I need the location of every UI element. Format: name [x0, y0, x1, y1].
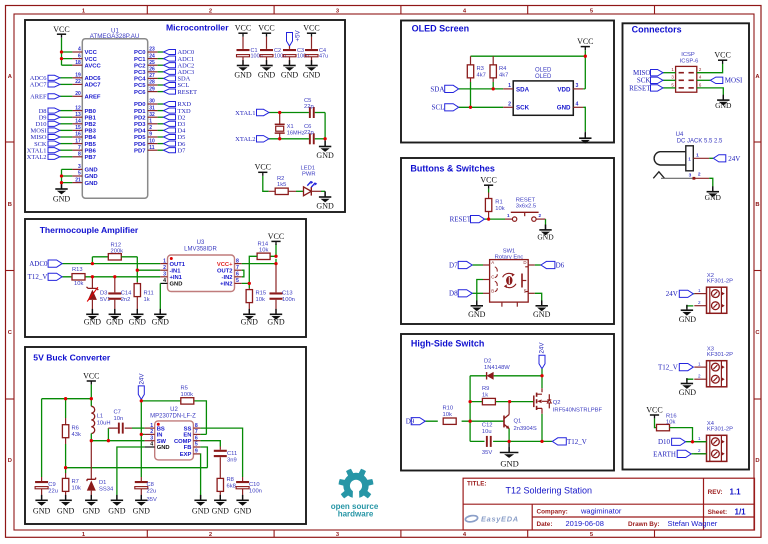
svg-text:C: C — [491, 275, 494, 280]
wire R16 to D10 row — [670, 428, 693, 442]
junction dots high-side — [468, 374, 543, 443]
svg-text:RESET: RESET — [450, 216, 472, 224]
net flag T12_V (X3) — [679, 364, 693, 371]
net flag SCK (ICSP) — [651, 77, 664, 83]
svg-text:OLED: OLED — [535, 74, 552, 80]
open source hardware logo — [339, 469, 374, 499]
wire to net flag TXD — [158, 110, 164, 112]
net flag SCK — [48, 141, 60, 146]
capacitor C11 3n9 — [214, 447, 237, 464]
svg-text:200k: 200k — [111, 248, 124, 254]
svg-text:VCC: VCC — [480, 176, 496, 185]
capacitor C14 2n2 — [108, 277, 132, 315]
svg-text:OLED Screen: OLED Screen — [412, 24, 470, 34]
wire to net flag ADC2 — [158, 64, 164, 66]
svg-text:2: 2 — [698, 300, 701, 305]
svg-text:27: 27 — [149, 73, 155, 79]
ground (thermo) — [91, 309, 93, 314]
svg-text:Company:: Company: — [537, 509, 568, 516]
net flag XTAL2 — [48, 154, 60, 159]
svg-text:COMP: COMP — [174, 439, 192, 445]
svg-text:10n: 10n — [114, 416, 124, 422]
svg-text:2: 2 — [163, 265, 166, 271]
svg-text:GND: GND — [241, 317, 259, 326]
net flag D7 — [458, 261, 472, 268]
capacitor C9 22u — [35, 477, 58, 500]
svg-text:GND: GND — [85, 174, 98, 180]
svg-text:PC5: PC5 — [134, 83, 146, 89]
resistor R5 100k — [181, 385, 194, 404]
wire 24V rail (high-side) — [470, 369, 542, 442]
svg-text:Date:: Date: — [537, 521, 553, 528]
net flag D6 — [541, 261, 555, 268]
svg-text:GND: GND — [157, 445, 170, 451]
svg-text:R8: R8 — [227, 477, 234, 483]
wire to net flag D9 — [60, 116, 72, 118]
svg-text:BS: BS — [157, 426, 165, 432]
svg-text:LMV358IDR: LMV358IDR — [184, 247, 217, 253]
svg-text:ADC0: ADC0 — [29, 260, 48, 268]
svg-text:47u: 47u — [319, 54, 328, 60]
svg-text:100n: 100n — [249, 489, 262, 495]
svg-text:26: 26 — [149, 67, 155, 73]
svg-text:SCL: SCL — [432, 104, 445, 112]
net flag SDA — [164, 76, 176, 81]
svg-text:10k: 10k — [443, 412, 452, 418]
svg-text:PC4: PC4 — [134, 77, 146, 83]
svg-text:D1: D1 — [99, 480, 106, 486]
svg-text:PB1: PB1 — [85, 115, 97, 121]
svg-text:2: 2 — [698, 172, 701, 178]
OLED display module — [503, 68, 583, 116]
svg-text:7: 7 — [236, 265, 239, 271]
wire to net flag ADC6 — [60, 77, 72, 79]
svg-text:31: 31 — [149, 105, 155, 111]
svg-text:PD4: PD4 — [134, 129, 146, 135]
svg-text:ADC6: ADC6 — [85, 76, 102, 82]
wire SDA net — [459, 88, 504, 90]
svg-text:1: 1 — [698, 436, 701, 441]
wire D9/R10/base row — [425, 420, 504, 422]
wire RESET to ICSP pin5 — [663, 87, 676, 89]
net flag RXD — [164, 101, 176, 106]
wire FB to feedback row — [200, 447, 207, 468]
svg-text:PD1: PD1 — [134, 109, 146, 115]
svg-text:EARTH: EARTH — [653, 450, 676, 458]
DC jack U4 DC JACK 5.5 2.5 — [653, 132, 723, 180]
wire EXP to ground — [199, 454, 201, 500]
capacitor C3 100n — [283, 48, 309, 60]
junction dot X4 — [691, 440, 694, 443]
svg-text:EN: EN — [183, 433, 191, 439]
svg-text:ADC7: ADC7 — [85, 83, 102, 89]
wire R14 to R15/+IN2 — [242, 256, 257, 288]
svg-text:20: 20 — [75, 91, 81, 97]
net flag XTAL1 — [48, 148, 60, 153]
ground (ICSP) — [722, 97, 724, 101]
lead C1 bottom — [242, 57, 244, 65]
wire to net flag SCL — [158, 84, 164, 86]
lead C3 top — [289, 46, 291, 49]
svg-text:R3: R3 — [477, 66, 484, 72]
svg-text:OUT1: OUT1 — [170, 262, 186, 268]
svg-text:RESET: RESET — [178, 89, 198, 96]
svg-text:R5: R5 — [181, 385, 188, 391]
svg-text:10k: 10k — [256, 297, 265, 303]
ground (buck) — [90, 495, 92, 500]
svg-text:GND: GND — [133, 506, 151, 515]
wire/lead C2 top — [266, 37, 268, 49]
ground (buck) — [242, 495, 244, 500]
wire VCC+ to VCC — [242, 244, 276, 264]
svg-text:VCC: VCC — [53, 25, 69, 34]
capacitor C13 100n — [270, 264, 295, 315]
svg-text:C13: C13 — [282, 291, 293, 297]
resistor R3 4k7 — [467, 56, 486, 82]
svg-text:PC3: PC3 — [134, 70, 146, 76]
svg-text:VCC: VCC — [85, 50, 98, 56]
wire ADC0/OUT1 net — [62, 257, 160, 264]
capacitor C1 100n — [237, 48, 263, 60]
svg-text:U3: U3 — [197, 240, 205, 246]
svg-text:Drawn By:: Drawn By: — [628, 521, 660, 528]
svg-text:XTAL1: XTAL1 — [235, 110, 255, 117]
ground (buck) — [116, 495, 118, 500]
svg-text:8: 8 — [78, 152, 81, 158]
frame column numbers — [82, 8, 594, 538]
svg-text:24: 24 — [149, 53, 155, 59]
svg-text:PB2: PB2 — [85, 122, 97, 128]
svg-text:2: 2 — [149, 125, 152, 131]
svg-text:32: 32 — [149, 112, 155, 118]
junction dots crystal — [278, 111, 327, 141]
wire Q1 emitter down — [508, 429, 510, 442]
net flag ADC0 — [164, 49, 176, 54]
svg-text:C7: C7 — [114, 410, 121, 416]
High-Side Switch box — [401, 334, 614, 471]
svg-text:PC0: PC0 — [134, 50, 146, 56]
lead C2 bottom — [266, 57, 268, 65]
capacitor C8 22u 35V — [135, 477, 157, 503]
svg-text:GND: GND — [234, 506, 252, 515]
svg-text:4k7: 4k7 — [477, 72, 486, 78]
net flag MISO — [48, 134, 60, 139]
wire OLED VCC rail — [471, 50, 586, 89]
svg-text:R4: R4 — [499, 66, 507, 72]
svg-text:PD5: PD5 — [134, 135, 146, 141]
wire to net flag RESET — [158, 91, 164, 93]
junction dots U1 power/ground — [60, 50, 63, 184]
wire OLED GND pin — [583, 107, 585, 131]
wire to net flag SCK — [60, 143, 72, 145]
svg-text:4: 4 — [163, 278, 166, 284]
net flag TXD — [164, 108, 176, 113]
svg-text:3: 3 — [150, 435, 153, 441]
wire COMP to C11 — [200, 441, 220, 447]
svg-text:8: 8 — [236, 258, 239, 264]
capacitor C2 100n — [260, 48, 286, 60]
svg-text:2: 2 — [508, 102, 511, 108]
svg-text:GND: GND — [33, 506, 51, 515]
svg-text:C10: C10 — [249, 482, 260, 488]
wire to net flag RXD — [158, 103, 164, 105]
net flag ADC0 — [48, 260, 62, 267]
net flag SCL — [445, 104, 459, 111]
wire MISO to ICSP pin1 — [663, 72, 676, 74]
svg-text:22: 22 — [75, 79, 81, 85]
resistor R11 1k — [134, 282, 154, 314]
wire SS to C10 — [200, 428, 242, 477]
resistor R14 10k — [257, 242, 270, 260]
svg-text:17: 17 — [75, 138, 81, 144]
svg-text:6: 6 — [78, 53, 81, 59]
svg-text:100n: 100n — [282, 297, 295, 303]
svg-text:1: 1 — [163, 258, 166, 264]
regulator U2 MP2307DN-LF-Z — [145, 407, 201, 460]
svg-text:AREF: AREF — [30, 94, 47, 101]
svg-text:PWR: PWR — [302, 172, 316, 178]
svg-text:3: 3 — [78, 164, 81, 170]
header ICSP ICSP-6 — [671, 52, 702, 92]
net flag 24V (X2) — [679, 290, 693, 297]
svg-text:GND: GND — [500, 459, 518, 469]
svg-text:ICSP: ICSP — [681, 52, 695, 58]
svg-text:GND: GND — [316, 151, 334, 160]
svg-text:Q2: Q2 — [553, 400, 561, 406]
svg-text:GND: GND — [281, 71, 299, 80]
net flag EARTH — [677, 450, 691, 457]
svg-text:R7: R7 — [72, 479, 79, 485]
svg-text:PD0: PD0 — [134, 102, 146, 108]
capacitor C7 10n — [108, 410, 132, 434]
svg-text:GND: GND — [533, 310, 551, 319]
svg-text:16: 16 — [75, 132, 81, 138]
wire R4 to SDA row — [492, 82, 494, 89]
wire to net flag AREF — [60, 95, 72, 97]
wire D7 to SW1 pin A — [472, 264, 483, 266]
wire ICSP pin4 to MOSI — [697, 79, 711, 81]
svg-text:VCC: VCC — [258, 24, 274, 33]
resistor R6 43k — [62, 418, 81, 444]
svg-text:Connectors: Connectors — [632, 24, 682, 34]
ground (OLED) — [584, 132, 586, 139]
net flag D6 — [164, 141, 176, 146]
wire U4 tip to 24V — [709, 157, 713, 159]
svg-text:6k8: 6k8 — [227, 484, 236, 490]
svg-text:T12_V: T12_V — [658, 364, 678, 372]
svg-text:AVCC: AVCC — [85, 63, 102, 69]
svg-text:A: A — [491, 260, 494, 265]
svg-text:High-Side Switch: High-Side Switch — [411, 338, 485, 348]
svg-text:Buttons & Switches: Buttons & Switches — [410, 163, 495, 173]
svg-text:R1: R1 — [495, 200, 502, 206]
svg-text:SS34: SS34 — [99, 487, 114, 493]
svg-text:5: 5 — [195, 442, 198, 448]
LED LED1 PWR — [301, 166, 318, 196]
svg-text:10u: 10u — [482, 429, 492, 435]
wire SW1 pin E to GND — [535, 293, 542, 302]
push button RESET 3x6x2.5 — [505, 198, 546, 222]
svg-text:PC1: PC1 — [134, 57, 146, 63]
svg-text:13: 13 — [75, 112, 81, 118]
wire SW node row — [91, 428, 144, 441]
net flag ADC7 — [48, 82, 60, 87]
svg-text:16MHz: 16MHz — [287, 130, 305, 136]
wire R12 to -IN1 — [121, 257, 160, 282]
svg-text:GND: GND — [679, 388, 697, 397]
svg-text:VDD: VDD — [557, 86, 571, 93]
svg-text:B: B — [491, 289, 494, 294]
svg-text:VCC: VCC — [577, 37, 593, 46]
svg-text:28: 28 — [149, 80, 155, 86]
svg-text:Stefan Wagner: Stefan Wagner — [668, 519, 718, 528]
svg-text:2: 2 — [539, 213, 542, 218]
wire to net flag D8 — [60, 110, 72, 112]
svg-text:23: 23 — [149, 47, 155, 53]
microcontroller U1 ATMEGA328P.AU — [72, 28, 157, 199]
svg-text:T12_V: T12_V — [567, 438, 587, 446]
svg-text:GND: GND — [108, 506, 126, 515]
svg-text:21: 21 — [75, 177, 81, 183]
junction dots buck — [64, 397, 143, 469]
wire RESET net — [485, 218, 506, 220]
capacitor C12 10u 35V — [482, 423, 493, 456]
frame row ticks — [6, 142, 762, 399]
ground (buck) — [219, 495, 221, 500]
svg-text:ADC7: ADC7 — [30, 82, 47, 89]
ground (thermo) — [114, 309, 116, 314]
net flag SCL — [164, 82, 176, 87]
wire OUT2 to -IN2 loop — [242, 270, 244, 277]
terminal block X3 KF301-2P — [694, 346, 733, 386]
Connectors box — [623, 23, 750, 469]
net flag T12_V (thermo) — [48, 273, 62, 280]
svg-text:hardware: hardware — [338, 510, 374, 519]
diode D2 1N4148W — [484, 359, 510, 380]
ground (SW1 right) — [541, 302, 543, 306]
net flag D8 — [458, 290, 472, 297]
junction dots thermo — [91, 255, 278, 285]
wire U3 GND pin to ground — [159, 282, 161, 284]
wire ICSP pin6 to GND — [697, 88, 724, 97]
svg-text:GND: GND — [83, 506, 101, 515]
svg-text:Thermocouple Amplifier: Thermocouple Amplifier — [40, 225, 139, 235]
svg-text:GND: GND — [468, 310, 486, 319]
svg-text:GND: GND — [267, 317, 285, 326]
title block frame — [463, 478, 754, 530]
svg-text:4: 4 — [150, 442, 153, 448]
svg-text:10k: 10k — [259, 248, 268, 254]
svg-text:C11: C11 — [227, 451, 237, 457]
ground (crystal) — [324, 139, 326, 147]
wire to net flag MOSI — [60, 129, 72, 131]
wire XTAL1 net — [269, 113, 325, 139]
svg-text:25: 25 — [149, 60, 155, 66]
svg-text:GND: GND — [679, 315, 697, 324]
svg-text:VCC: VCC — [714, 51, 730, 60]
net flag T12_V (high-side) — [552, 438, 566, 445]
wire ICSP pin2 to VCC — [697, 64, 723, 73]
net flag MISO — [651, 70, 664, 76]
svg-text:22u: 22u — [147, 489, 157, 495]
wire EARTH net — [691, 453, 706, 455]
net flag ADC6 — [48, 75, 60, 80]
svg-text:C12: C12 — [482, 423, 493, 429]
svg-text:29: 29 — [149, 86, 155, 92]
svg-text:18: 18 — [75, 60, 81, 66]
svg-text:SDA: SDA — [430, 85, 444, 93]
svg-text:GND: GND — [212, 506, 230, 515]
svg-text:4k7: 4k7 — [499, 72, 508, 78]
svg-text:D7: D7 — [178, 147, 187, 154]
svg-text:XTAL2: XTAL2 — [235, 136, 255, 143]
net flag D2 — [164, 115, 176, 120]
wire button to GND — [545, 219, 547, 224]
svg-text:KF301-2P: KF301-2P — [707, 279, 733, 285]
svg-text:GND: GND — [234, 71, 252, 80]
svg-text:KF301-2P: KF301-2P — [707, 427, 733, 433]
ground (C4) — [311, 60, 313, 65]
svg-text:PB7: PB7 — [85, 155, 97, 161]
svg-text:GND: GND — [85, 168, 98, 174]
svg-text:R10: R10 — [443, 405, 454, 411]
ground (thermo) — [136, 309, 138, 314]
wire to net flag ADC0 — [158, 51, 164, 53]
ground (buck) — [41, 495, 43, 500]
wire GND pin 4 to ground — [117, 447, 145, 500]
svg-text:D10: D10 — [658, 438, 671, 446]
svg-text:PD3: PD3 — [134, 122, 146, 128]
svg-text:Q1: Q1 — [514, 419, 522, 425]
svg-text:7: 7 — [195, 429, 198, 435]
resistor R16 10k — [657, 414, 677, 431]
svg-text:+5V: +5V — [295, 29, 302, 41]
svg-text:8: 8 — [195, 423, 198, 429]
rotary encoder SW1 Rotary Enc — [483, 248, 535, 306]
svg-text:REV:: REV: — [708, 489, 723, 496]
svg-text:GND: GND — [106, 317, 124, 326]
wire R6 to R7 (FB row) — [66, 444, 208, 473]
svg-text:PB6: PB6 — [85, 148, 97, 154]
inductor L1 10uH — [91, 406, 110, 433]
svg-text:D3: D3 — [100, 291, 107, 297]
svg-text:5: 5 — [78, 171, 81, 177]
wire R3 to SCL row — [470, 82, 472, 107]
svg-text:PB4: PB4 — [85, 135, 97, 141]
diode D1 SS34 — [87, 441, 114, 501]
svg-text:SW: SW — [157, 439, 167, 445]
svg-text:VCC: VCC — [255, 163, 271, 172]
ground (U4) — [712, 188, 714, 192]
wire 24V to X2 — [693, 293, 694, 295]
svg-text:2n3904S: 2n3904S — [514, 426, 537, 432]
capacitor C4 47u — [305, 48, 328, 60]
lead C3 bottom — [289, 57, 291, 65]
svg-text:VCC: VCC — [268, 232, 284, 241]
svg-text:-IN2: -IN2 — [222, 275, 233, 281]
net flag AREF — [48, 94, 60, 99]
ground (button) — [545, 225, 547, 230]
svg-text:11: 11 — [149, 145, 155, 151]
svg-text:10: 10 — [149, 138, 155, 144]
svg-text:R13: R13 — [72, 267, 83, 273]
svg-text:GND: GND — [303, 71, 321, 80]
svg-text:TITLE:: TITLE: — [467, 480, 487, 487]
net flag ADC1 — [164, 56, 176, 61]
svg-text:GND: GND — [537, 232, 554, 241]
svg-text:C9: C9 — [48, 482, 55, 488]
wire R9 row — [470, 401, 534, 403]
